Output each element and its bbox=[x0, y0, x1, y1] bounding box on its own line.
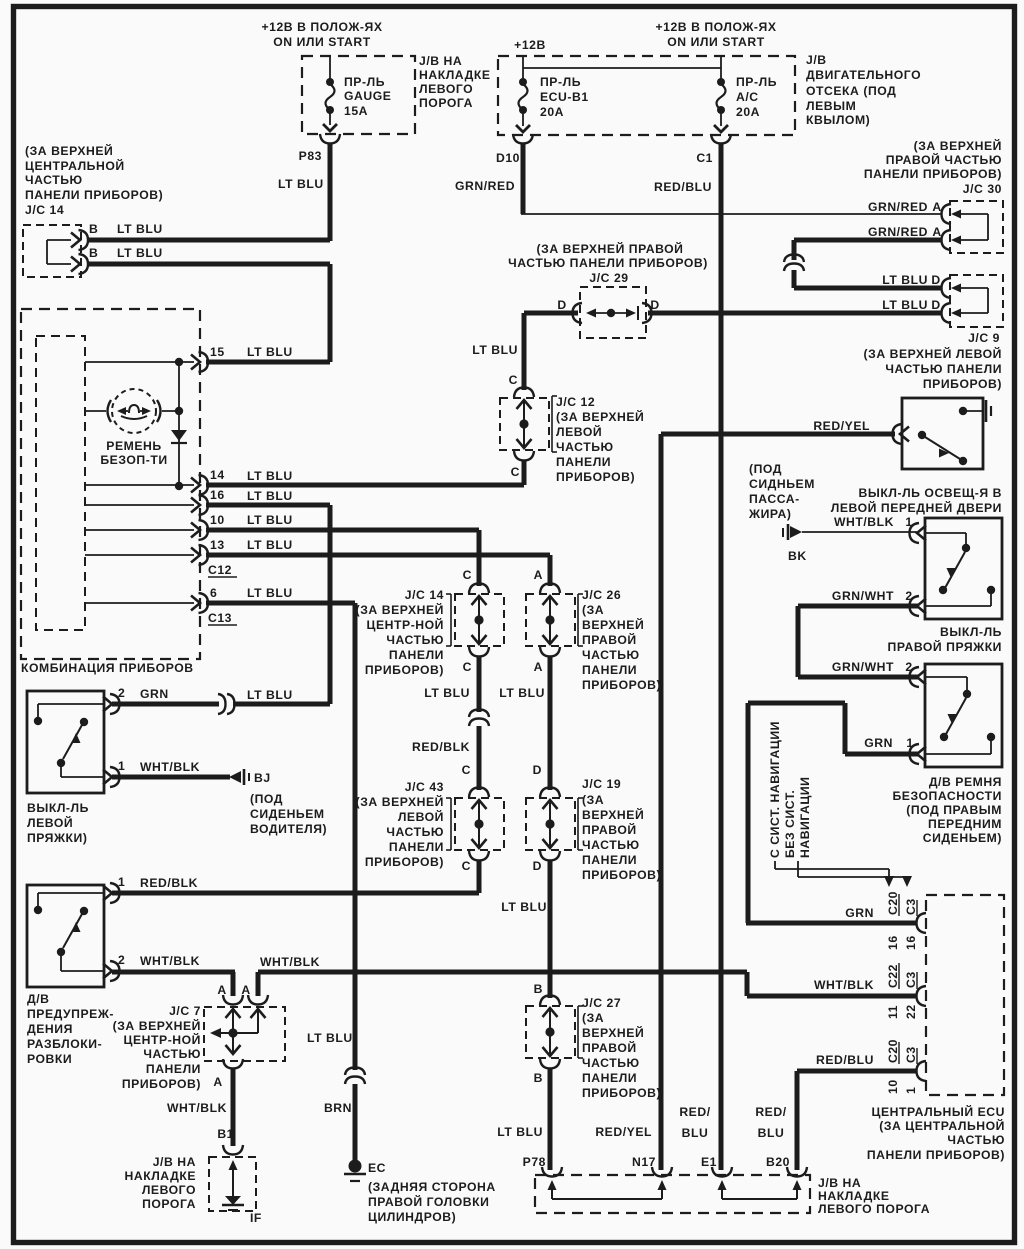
svg-text:C: C bbox=[463, 660, 472, 674]
svg-text:(ЗА ВЕРХНЕЙ ЛЕВОЙ: (ЗА ВЕРХНЕЙ ЛЕВОЙ bbox=[864, 346, 1002, 361]
svg-text:С СИСТ. НАВИГАЦИИ: С СИСТ. НАВИГАЦИИ bbox=[768, 721, 782, 858]
svg-text:(ПОД: (ПОД bbox=[749, 462, 782, 476]
svg-text:ПРИБОРОВ): ПРИБОРОВ) bbox=[365, 855, 444, 869]
svg-text:6: 6 bbox=[210, 586, 217, 600]
wire LT BLU below J/C14 mid bbox=[477, 657, 482, 712]
svg-text:13: 13 bbox=[210, 538, 225, 552]
svg-text:РАЗБЛОКИ-: РАЗБЛОКИ- bbox=[27, 1037, 102, 1051]
svg-text:ЛЕВЫМ: ЛЕВЫМ bbox=[806, 99, 856, 113]
label J/C 14 middle and location bbox=[450, 594, 452, 646]
svg-text:J/C 14: J/C 14 bbox=[405, 588, 444, 602]
svg-text:C1: C1 bbox=[696, 151, 713, 165]
junction connector J/C14 top-left (dashed box) bbox=[23, 225, 81, 277]
wire LT BLU D to J/C9 pin 1 bbox=[794, 286, 941, 291]
svg-text:GRN/RED: GRN/RED bbox=[868, 200, 928, 214]
wire WHT/BLK to BJ bbox=[112, 775, 230, 780]
svg-text:EC: EC bbox=[368, 1161, 386, 1175]
seat belt warning lamp bbox=[108, 400, 112, 422]
wire LT BLU D to J/C9 pin 2 bbox=[648, 311, 941, 316]
cluster internal module (dashed box) bbox=[36, 336, 85, 630]
svg-text:ЦИЛИНДРОВ): ЦИЛИНДРОВ) bbox=[368, 1210, 456, 1224]
svg-text:ПАНЕЛИ: ПАНЕЛИ bbox=[582, 853, 637, 867]
svg-text:ЦЕНТР-НОЙ: ЦЕНТР-НОЙ bbox=[124, 1032, 201, 1047]
svg-text:LT BLU: LT BLU bbox=[247, 538, 293, 552]
svg-text:ПРАВОЙ: ПРАВОЙ bbox=[582, 822, 637, 837]
svg-text:WHT/BLK: WHT/BLK bbox=[167, 1101, 227, 1115]
junction connector J/C12 bbox=[514, 388, 534, 398]
svg-text:ПРЕДУПРЕЖ-: ПРЕДУПРЕЖ- bbox=[27, 1007, 114, 1021]
svg-text:ЧАСТЬЮ: ЧАСТЬЮ bbox=[386, 633, 444, 647]
svg-text:ДЕНИЯ: ДЕНИЯ bbox=[27, 1022, 73, 1036]
svg-text:LT BLU: LT BLU bbox=[278, 177, 324, 191]
svg-text:RED/BLK: RED/BLK bbox=[412, 740, 470, 754]
svg-text:LT BLU: LT BLU bbox=[117, 246, 163, 260]
svg-text:C3: C3 bbox=[904, 1046, 918, 1063]
bus bar E1-B20 bbox=[718, 1180, 727, 1190]
wire C1 RED/BLU vertical (long) bbox=[719, 144, 724, 1170]
svg-text:ПРИБОРОВ): ПРИБОРОВ) bbox=[365, 663, 444, 677]
svg-text:20A: 20A bbox=[540, 105, 564, 119]
svg-text:D: D bbox=[931, 298, 940, 312]
svg-text:ВЕРХНЕЙ: ВЕРХНЕЙ bbox=[582, 617, 644, 632]
wire pin16 LT BLU bbox=[206, 503, 330, 508]
junction connector J/C19 bbox=[540, 788, 560, 798]
svg-text:+12В В ПОЛОЖ-ЯХ: +12В В ПОЛОЖ-ЯХ bbox=[655, 20, 776, 34]
svg-text:ПРИБОРОВ): ПРИБОРОВ) bbox=[582, 868, 661, 882]
svg-text:(ЗА ВЕРХНЕЙ: (ЗА ВЕРХНЕЙ bbox=[914, 138, 1002, 153]
wire RED/BLK to unlock warning switch pin 1 bbox=[477, 861, 482, 893]
svg-text:ЛЕВОЙ ПЕРЕДНЕЙ ДВЕРИ: ЛЕВОЙ ПЕРЕДНЕЙ ДВЕРИ bbox=[831, 500, 1002, 515]
connector P78 bbox=[542, 1167, 562, 1177]
junction block J/B left sill bottom (dashed box) bbox=[209, 1157, 256, 1211]
svg-text:J/C 12: J/C 12 bbox=[556, 395, 595, 409]
connector B20 bbox=[787, 1167, 807, 1177]
bus wire inside engine J/B bbox=[522, 56, 524, 68]
wire GRN/WHT to belt sensor pin 2 bbox=[798, 675, 919, 680]
svg-text:22: 22 bbox=[904, 1004, 918, 1019]
svg-text:ПРАВОЙ: ПРАВОЙ bbox=[582, 1040, 637, 1055]
svg-text:ЦЕНТРАЛЬНЫЙ ECU: ЦЕНТРАЛЬНЫЙ ECU bbox=[872, 1104, 1005, 1119]
svg-text:НАКЛАДКЕ: НАКЛАДКЕ bbox=[818, 1189, 890, 1203]
wire WHT/BLK from switch to J/C7 bbox=[112, 970, 235, 975]
svg-text:GRN: GRN bbox=[864, 736, 893, 750]
svg-text:C22: C22 bbox=[886, 964, 900, 988]
svg-text:НАВИГАЦИИ: НАВИГАЦИИ bbox=[798, 777, 812, 858]
svg-text:(ЗА: (ЗА bbox=[582, 603, 604, 617]
svg-text:D: D bbox=[557, 298, 566, 312]
svg-text:ПРАВОЙ ПРЯЖКИ: ПРАВОЙ ПРЯЖКИ bbox=[888, 639, 1002, 654]
svg-text:C3: C3 bbox=[904, 898, 918, 915]
svg-text:LT BLU: LT BLU bbox=[882, 273, 928, 287]
svg-text:1: 1 bbox=[118, 759, 125, 773]
svg-text:СИДЕНЬЕМ: СИДЕНЬЕМ bbox=[250, 807, 325, 821]
svg-text:1: 1 bbox=[906, 736, 913, 750]
svg-text:GRN: GRN bbox=[845, 906, 874, 920]
junction connector J/C43 bbox=[469, 788, 489, 798]
svg-text:ПРИБОРОВ): ПРИБОРОВ) bbox=[122, 1077, 201, 1091]
wire GRN / LT BLU from buckle switch bbox=[112, 702, 219, 707]
wire LT BLU chain B to J/C27 bbox=[548, 861, 553, 998]
junction block J/B left sill top (dashed box) bbox=[302, 56, 415, 134]
svg-text:RED/YEL: RED/YEL bbox=[595, 1125, 652, 1139]
svg-text:ПРИБОРОВ): ПРИБОРОВ) bbox=[582, 1086, 661, 1100]
wire P83 LT BLU vertical bbox=[328, 144, 333, 241]
cluster pin 15 bbox=[85, 361, 194, 363]
svg-text:J/C 7: J/C 7 bbox=[169, 1004, 201, 1018]
svg-text:ПРАВОЙ: ПРАВОЙ bbox=[582, 632, 637, 647]
bus bar P78-N17 bbox=[548, 1180, 557, 1190]
svg-text:C12: C12 bbox=[208, 563, 232, 577]
svg-text:РЕМЕНЬ: РЕМЕНЬ bbox=[106, 439, 161, 453]
svg-text:Д/В РЕМНЯ: Д/В РЕМНЯ bbox=[929, 775, 1002, 789]
svg-text:ВЕРХНЕЙ: ВЕРХНЕЙ bbox=[582, 807, 644, 822]
svg-text:11: 11 bbox=[886, 1005, 900, 1019]
svg-text:J/C 26: J/C 26 bbox=[582, 588, 621, 602]
svg-text:ПОРОГА: ПОРОГА bbox=[142, 1197, 196, 1211]
svg-text:КОМБИНАЦИЯ ПРИБОРОВ: КОМБИНАЦИЯ ПРИБОРОВ bbox=[21, 661, 194, 675]
svg-text:LT BLU: LT BLU bbox=[497, 1125, 543, 1139]
svg-text:1: 1 bbox=[904, 1087, 918, 1094]
wire pin15 LT BLU bbox=[206, 360, 330, 365]
svg-text:BLU: BLU bbox=[682, 1126, 709, 1140]
svg-text:(ЗА ВЕРХНЕЙ: (ЗА ВЕРХНЕЙ bbox=[556, 409, 644, 424]
svg-text:ЛЕВОГО: ЛЕВОГО bbox=[142, 1183, 196, 1197]
svg-text:C: C bbox=[462, 859, 471, 873]
svg-text:ПР-ЛЬ: ПР-ЛЬ bbox=[736, 75, 777, 89]
wire pin13 LT BLU bbox=[206, 553, 550, 558]
svg-text:(ЗА ВЕРХНЕЙ: (ЗА ВЕРХНЕЙ bbox=[356, 794, 444, 809]
svg-text:C20: C20 bbox=[886, 891, 900, 915]
label J/C 12 and location bbox=[551, 396, 553, 452]
svg-text:ПАНЕЛИ: ПАНЕЛИ bbox=[556, 455, 611, 469]
inline connector break GRN-LTBLU bbox=[218, 694, 226, 714]
svg-text:A: A bbox=[213, 1075, 222, 1089]
svg-text:1: 1 bbox=[118, 875, 125, 889]
svg-text:ПР-ЛЬ: ПР-ЛЬ bbox=[344, 75, 385, 89]
svg-text:ВЫКЛ-ЛЬ: ВЫКЛ-ЛЬ bbox=[940, 625, 1002, 639]
svg-text:ПАНЕЛИ ПРИБОРОВ): ПАНЕЛИ ПРИБОРОВ) bbox=[864, 167, 1002, 181]
svg-text:LT BLU: LT BLU bbox=[882, 298, 928, 312]
svg-text:Д/В: Д/В bbox=[27, 992, 50, 1006]
svg-text:ОТСЕКА (ПОД: ОТСЕКА (ПОД bbox=[806, 84, 896, 98]
nav option bracket 1 bbox=[774, 861, 776, 869]
svg-text:N17: N17 bbox=[632, 1155, 656, 1169]
svg-text:ПР-ЛЬ: ПР-ЛЬ bbox=[540, 75, 581, 89]
svg-text:20А: 20А bbox=[736, 105, 760, 119]
ground EC bbox=[349, 1160, 362, 1173]
wire LT BLU chain A middle bbox=[548, 657, 553, 790]
svg-text:C: C bbox=[511, 465, 520, 479]
svg-text:LT BLU: LT BLU bbox=[247, 513, 293, 527]
svg-text:WHT/BLK: WHT/BLK bbox=[814, 978, 874, 992]
label J/C 27 and location bbox=[577, 1006, 579, 1058]
nav option bracket 2 bbox=[797, 861, 799, 877]
inline connector break EC branch bbox=[345, 1068, 365, 1076]
svg-text:ON ИЛИ START: ON ИЛИ START bbox=[273, 35, 370, 49]
svg-text:2: 2 bbox=[905, 589, 912, 603]
wire GRN/RED A to J/C30 pin 1 (thin) bbox=[521, 213, 941, 215]
wire WHT/BLK BK to right buckle switch (thin) bbox=[802, 531, 917, 533]
svg-text:(ЗА: (ЗА bbox=[582, 793, 604, 807]
svg-text:ПРИБОРОВ): ПРИБОРОВ) bbox=[556, 470, 635, 484]
svg-text:LT BLU: LT BLU bbox=[501, 900, 547, 914]
svg-text:WHT/BLK: WHT/BLK bbox=[260, 955, 320, 969]
lamp circuit wires bbox=[85, 410, 106, 412]
svg-text:B: B bbox=[89, 246, 98, 260]
svg-text:2: 2 bbox=[118, 686, 125, 700]
wire WHT/BLK J/C7 to B1 bbox=[231, 1069, 236, 1146]
svg-text:J/B НА: J/B НА bbox=[419, 54, 462, 68]
svg-text:(ЗА: (ЗА bbox=[582, 1011, 604, 1025]
wire pin6 LT BLU (to EC ground) bbox=[206, 601, 355, 606]
svg-text:ПАНЕЛИ: ПАНЕЛИ bbox=[389, 840, 444, 854]
switch right buckle (box) bbox=[925, 518, 1002, 619]
svg-text:ПРИБОРОВ): ПРИБОРОВ) bbox=[923, 377, 1002, 391]
svg-text:P83: P83 bbox=[299, 149, 322, 163]
svg-text:LT BLU: LT BLU bbox=[247, 469, 293, 483]
wire vertical GRN/RED to LT BLU with inline connector bbox=[792, 240, 797, 260]
svg-text:15: 15 bbox=[210, 345, 225, 359]
svg-text:(ЗА ВЕРХНЕЙ: (ЗА ВЕРХНЕЙ bbox=[356, 602, 444, 617]
svg-text:ПАНЕЛИ: ПАНЕЛИ bbox=[146, 1062, 201, 1076]
svg-text:ПАНЕЛИ: ПАНЕЛИ bbox=[582, 1071, 637, 1085]
junction dots on lamp branch bbox=[175, 407, 183, 415]
label J/C 19 and location bbox=[577, 798, 579, 850]
svg-text:ЧАСТЬЮ: ЧАСТЬЮ bbox=[582, 838, 640, 852]
svg-text:ЧАСТЬЮ ПАНЕЛИ: ЧАСТЬЮ ПАНЕЛИ bbox=[885, 362, 1002, 376]
instrument cluster (dashed box) bbox=[21, 309, 200, 659]
svg-text:15A: 15A bbox=[344, 104, 368, 118]
svg-text:GRN/WHT: GRN/WHT bbox=[832, 589, 894, 603]
svg-text:КВЫЛОМ): КВЫЛОМ) bbox=[806, 113, 870, 127]
svg-text:GRN/RED: GRN/RED bbox=[455, 179, 515, 193]
svg-text:НАКЛАДКЕ: НАКЛАДКЕ bbox=[125, 1169, 197, 1183]
connector D10 bbox=[513, 134, 533, 144]
svg-text:J/B: J/B bbox=[806, 53, 827, 67]
svg-text:C3: C3 bbox=[904, 971, 918, 988]
svg-text:ПАССА-: ПАССА- bbox=[749, 492, 800, 506]
svg-text:ЧАСТЬЮ: ЧАСТЬЮ bbox=[582, 648, 640, 662]
svg-text:14: 14 bbox=[210, 468, 225, 482]
svg-text:ВОДИТЕЛЯ): ВОДИТЕЛЯ) bbox=[250, 822, 327, 836]
wire J/C14 B to P83 bbox=[87, 238, 330, 243]
central ECU (dashed box) bbox=[926, 895, 1004, 1095]
svg-text:ЖИРА): ЖИРА) bbox=[748, 507, 791, 521]
svg-text:ПАНЕЛИ ПРИБОРОВ): ПАНЕЛИ ПРИБОРОВ) bbox=[25, 188, 163, 202]
junction connector J/C27 bbox=[540, 996, 560, 1006]
junction connector J/C30 (dashed box) bbox=[950, 201, 1003, 253]
wire D10 GRN/RED vertical bbox=[521, 144, 526, 214]
svg-text:16: 16 bbox=[210, 488, 225, 502]
svg-text:LT BLU: LT BLU bbox=[307, 1031, 353, 1045]
svg-text:J/C 9: J/C 9 bbox=[968, 331, 1000, 345]
svg-text:BLU: BLU bbox=[758, 1126, 785, 1140]
svg-text:ЧАСТЬЮ ПАНЕЛИ ПРИБОРОВ): ЧАСТЬЮ ПАНЕЛИ ПРИБОРОВ) bbox=[508, 256, 708, 270]
svg-text:J/C 14: J/C 14 bbox=[25, 203, 64, 217]
svg-text:C20: C20 bbox=[886, 1039, 900, 1063]
svg-text:J/C 30: J/C 30 bbox=[963, 182, 1002, 196]
svg-text:ЧАСТЬЮ: ЧАСТЬЮ bbox=[582, 1056, 640, 1070]
cluster pin 14 bbox=[85, 484, 194, 486]
svg-text:10: 10 bbox=[886, 1079, 900, 1094]
svg-text:БЕЗОП-ТИ: БЕЗОП-ТИ bbox=[100, 453, 167, 467]
svg-text:БЕЗ СИСТ.: БЕЗ СИСТ. bbox=[783, 790, 797, 858]
svg-text:ПРЯЖКИ): ПРЯЖКИ) bbox=[27, 831, 87, 845]
connector N17 bbox=[652, 1167, 672, 1177]
wire GRN/RED A to J/C30 pin 2 bbox=[794, 238, 941, 243]
svg-text:E1: E1 bbox=[701, 1155, 717, 1169]
svg-text:RED/YEL: RED/YEL bbox=[813, 419, 870, 433]
wire RED/BLK chain C bbox=[477, 726, 482, 790]
svg-text:ЧАСТЬЮ: ЧАСТЬЮ bbox=[25, 173, 83, 187]
switch left buckle (box) bbox=[27, 691, 104, 793]
ground connector BK bbox=[782, 528, 784, 537]
svg-text:ПАНЕЛИ ПРИБОРОВ): ПАНЕЛИ ПРИБОРОВ) bbox=[867, 1148, 1005, 1162]
svg-text:A: A bbox=[534, 660, 543, 674]
svg-text:D: D bbox=[650, 298, 659, 312]
svg-text:A: A bbox=[217, 983, 226, 997]
svg-text:ВЫКЛ-ЛЬ ОСВЕЩ-Я В: ВЫКЛ-ЛЬ ОСВЕЩ-Я В bbox=[859, 486, 1002, 500]
svg-text:J/B НА: J/B НА bbox=[818, 1176, 861, 1190]
svg-text:LT BLU: LT BLU bbox=[424, 686, 470, 700]
svg-text:2: 2 bbox=[118, 953, 125, 967]
svg-text:RED/BLU: RED/BLU bbox=[654, 180, 712, 194]
svg-text:БЕЗОПАСНОСТИ: БЕЗОПАСНОСТИ bbox=[893, 789, 1003, 803]
svg-text:GRN/WHT: GRN/WHT bbox=[832, 660, 894, 674]
svg-text:J/B НА: J/B НА bbox=[153, 1155, 196, 1169]
svg-text:J/C 19: J/C 19 bbox=[582, 777, 621, 791]
svg-text:ЛЕВОЙ: ЛЕВОЙ bbox=[556, 424, 602, 439]
svg-text:WHT/BLK: WHT/BLK bbox=[140, 954, 200, 968]
svg-text:D: D bbox=[931, 273, 940, 287]
connector C1 bbox=[711, 134, 731, 144]
svg-text:RED/BLU: RED/BLU bbox=[816, 1053, 874, 1067]
svg-text:J/C 27: J/C 27 bbox=[582, 996, 621, 1010]
ground IF bbox=[225, 1196, 241, 1205]
svg-text:+12В В ПОЛОЖ-ЯХ: +12В В ПОЛОЖ-ЯХ bbox=[261, 20, 382, 34]
svg-text:LT BLU: LT BLU bbox=[247, 688, 293, 702]
cluster pin 6 bbox=[85, 602, 194, 604]
svg-text:C: C bbox=[462, 763, 471, 777]
svg-text:GAUGE: GAUGE bbox=[344, 89, 391, 103]
svg-text:GRN: GRN bbox=[140, 687, 169, 701]
label J/C 43 and location bbox=[450, 798, 452, 850]
svg-text:C13: C13 bbox=[208, 611, 232, 625]
svg-text:ЧАСТЬЮ: ЧАСТЬЮ bbox=[556, 440, 614, 454]
svg-text:+12В: +12В bbox=[514, 38, 546, 52]
svg-text:ECU-B1: ECU-B1 bbox=[540, 90, 589, 104]
svg-text:LT BLU: LT BLU bbox=[247, 489, 293, 503]
svg-text:B: B bbox=[534, 982, 543, 996]
svg-text:RED/BLK: RED/BLK bbox=[140, 876, 198, 890]
svg-text:WHT/BLK: WHT/BLK bbox=[140, 760, 200, 774]
junction connector J/C9 (dashed box) bbox=[950, 275, 1003, 327]
svg-text:RED/: RED/ bbox=[679, 1105, 710, 1119]
junction connector J/C26 bbox=[540, 584, 560, 594]
svg-text:A: A bbox=[241, 983, 250, 997]
svg-text:RED/: RED/ bbox=[755, 1105, 786, 1119]
svg-text:D: D bbox=[533, 763, 542, 777]
cluster pin 13 bbox=[85, 554, 194, 556]
junction block J/B left sill bottom-right (dashed box) bbox=[535, 1175, 810, 1213]
svg-text:C: C bbox=[463, 568, 472, 582]
svg-text:ПАНЕЛИ: ПАНЕЛИ bbox=[389, 648, 444, 662]
wire pin10 LT BLU bbox=[206, 528, 479, 533]
svg-text:ЛЕВОГО ПОРОГА: ЛЕВОГО ПОРОГА bbox=[818, 1202, 930, 1216]
svg-text:СИДЕНЬЕМ): СИДЕНЬЕМ) bbox=[923, 831, 1002, 845]
svg-text:РОВКИ: РОВКИ bbox=[27, 1052, 72, 1066]
svg-text:B: B bbox=[89, 222, 98, 236]
svg-text:(ПОД: (ПОД bbox=[250, 792, 283, 806]
wire GRN path to ECU bbox=[843, 703, 848, 754]
svg-text:(ЗА ВЕРХНЕЙ: (ЗА ВЕРХНЕЙ bbox=[25, 143, 113, 158]
cluster pin 10 bbox=[85, 529, 194, 531]
fuse ECU-B1 20A bbox=[522, 68, 524, 81]
svg-text:A: A bbox=[932, 225, 941, 239]
svg-text:ВЫКЛ-ЛЬ: ВЫКЛ-ЛЬ bbox=[27, 801, 89, 815]
connector E1 bbox=[712, 1167, 732, 1177]
svg-text:J/C 43: J/C 43 bbox=[405, 780, 444, 794]
svg-text:WHT/BLK: WHT/BLK bbox=[834, 515, 894, 529]
svg-text:LT BLU: LT BLU bbox=[247, 345, 293, 359]
svg-text:GRN/RED: GRN/RED bbox=[868, 225, 928, 239]
label J/C 26 and location bbox=[577, 594, 579, 646]
wire J/C14 B to pin15 bbox=[87, 262, 330, 267]
svg-text:D10: D10 bbox=[496, 151, 520, 165]
fuse GAUGE 15A bbox=[329, 56, 331, 81]
svg-text:B: B bbox=[534, 1071, 543, 1085]
svg-text:16: 16 bbox=[886, 935, 900, 950]
svg-text:(ЗА ВЕРХНЕЙ: (ЗА ВЕРХНЕЙ bbox=[113, 1018, 201, 1033]
svg-text:(ПОД ПРАВЫМ: (ПОД ПРАВЫМ bbox=[906, 803, 1002, 817]
svg-text:ПРАВОЙ ГОЛОВКИ: ПРАВОЙ ГОЛОВКИ bbox=[368, 1194, 489, 1209]
svg-text:B1: B1 bbox=[217, 1127, 234, 1141]
svg-text:ЧАСТЬЮ: ЧАСТЬЮ bbox=[143, 1047, 201, 1061]
svg-text:D: D bbox=[533, 859, 542, 873]
svg-text:C: C bbox=[509, 373, 518, 387]
svg-text:ПОРОГА: ПОРОГА bbox=[419, 96, 473, 110]
wire RED/YEL to door switch bbox=[661, 432, 895, 437]
wire LT BLU from J/C29 left bbox=[524, 311, 578, 316]
svg-text:P78: P78 bbox=[523, 1155, 546, 1169]
inline connector break on chain C bbox=[469, 710, 489, 718]
svg-text:LT BLU: LT BLU bbox=[472, 343, 518, 357]
wire LT BLU J/C12 to pin 14 bbox=[522, 461, 527, 485]
junction block J/B engine compartment (dashed box) bbox=[498, 56, 795, 135]
svg-text:ПЕРЕДНИМ: ПЕРЕДНИМ bbox=[928, 817, 1002, 831]
svg-text:BJ: BJ bbox=[254, 771, 271, 785]
junction connector J/C29 (dashed box) bbox=[580, 287, 646, 338]
svg-text:A: A bbox=[534, 568, 543, 582]
svg-text:ПРИБОРОВ): ПРИБОРОВ) bbox=[582, 678, 661, 692]
svg-text:A: A bbox=[932, 200, 941, 214]
svg-text:LT BLU: LT BLU bbox=[247, 586, 293, 600]
wire LT BLU J/C27 to P78 bbox=[548, 1069, 553, 1170]
svg-text:ПАНЕЛИ: ПАНЕЛИ bbox=[582, 663, 637, 677]
svg-text:J/C 29: J/C 29 bbox=[589, 271, 628, 285]
diode bbox=[178, 362, 180, 486]
wire pin14 LT BLU bbox=[206, 483, 524, 488]
inline connector break symbol bbox=[784, 255, 804, 263]
svg-text:IF: IF bbox=[250, 1211, 262, 1225]
svg-text:ЛЕВОГО: ЛЕВОГО bbox=[419, 82, 473, 96]
svg-text:ПРАВОЙ ЧАСТЬЮ: ПРАВОЙ ЧАСТЬЮ bbox=[886, 152, 1002, 167]
svg-text:ЧАСТЬЮ: ЧАСТЬЮ bbox=[386, 825, 444, 839]
switch door courtesy light (box) bbox=[902, 398, 983, 469]
svg-text:ЦЕНТР-НОЙ: ЦЕНТР-НОЙ bbox=[367, 617, 444, 632]
svg-text:А/С: А/С bbox=[736, 90, 759, 104]
svg-text:(ЗА ЦЕНТРАЛЬНОЙ: (ЗА ЦЕНТРАЛЬНОЙ bbox=[879, 1118, 1005, 1133]
